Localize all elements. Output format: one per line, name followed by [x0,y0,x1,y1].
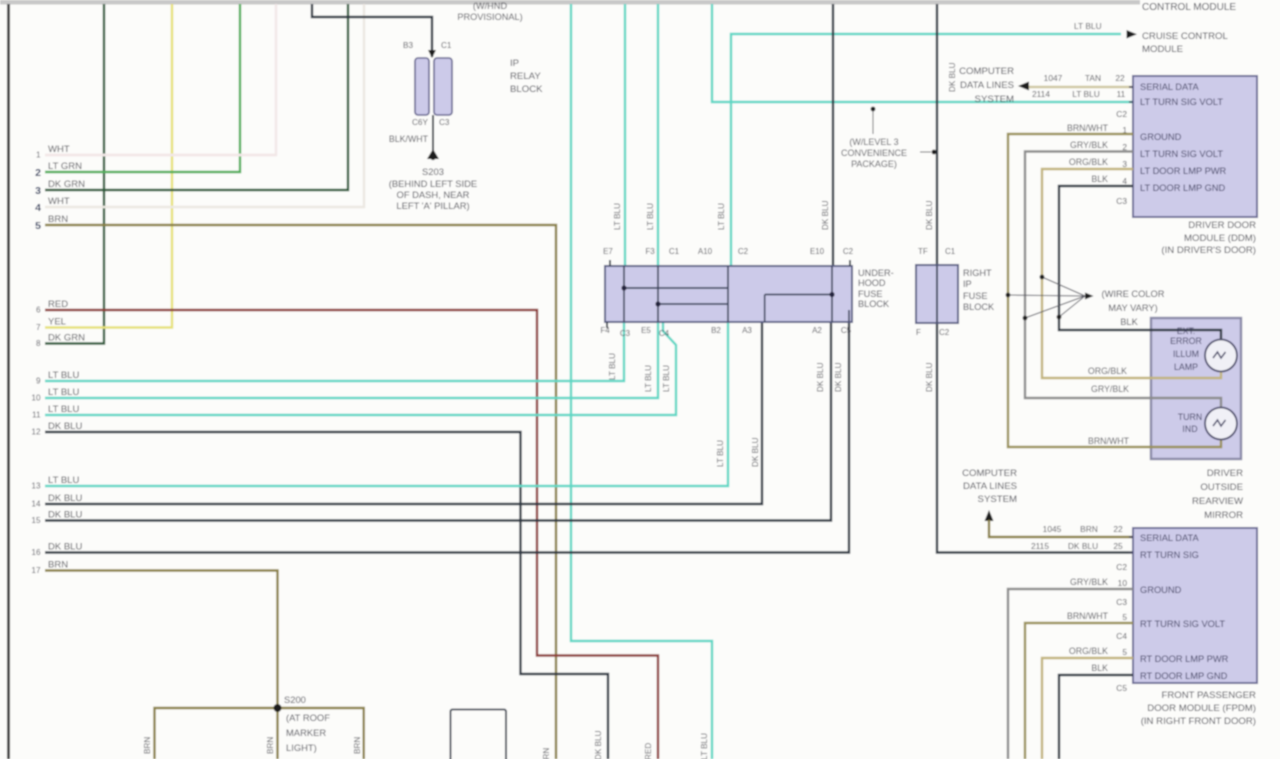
svg-text:C2: C2 [1116,109,1127,119]
wire relay to S203 [432,115,434,153]
fuse block internal wiring [624,266,849,322]
svg-text:12: 12 [31,428,41,437]
svg-text:DK BLU: DK BLU [925,200,934,230]
svg-text:C1: C1 [945,247,956,256]
svg-text:(W/LEVEL 3: (W/LEVEL 3 [849,137,898,147]
computer data lines (bottom) [962,468,1017,505]
svg-text:MARKER: MARKER [286,727,326,738]
svg-text:PACKAGE): PACKAGE) [851,159,897,169]
svg-text:RT TURN SIG: RT TURN SIG [1140,550,1199,560]
serial data wire labels [1032,73,1126,99]
cruise control module text [1142,31,1228,55]
svg-text:DK BLU: DK BLU [48,510,82,521]
svg-text:RT DOOR LMP PWR: RT DOOR LMP PWR [1140,654,1229,664]
svg-text:6: 6 [36,306,41,315]
svg-text:F4: F4 [600,326,610,335]
row 5 BRN wire to bottom [45,225,556,759]
svg-text:10: 10 [1118,578,1128,588]
svg-text:4: 4 [35,202,41,214]
svg-text:ORG/BLK: ORG/BLK [1088,366,1127,376]
svg-text:LT BLU: LT BLU [48,404,79,415]
rotated wire labels near page bottom [542,730,709,759]
svg-text:2114: 2114 [1032,89,1050,99]
top gray bar [0,0,1140,5]
svg-text:C4: C4 [1116,631,1127,641]
mirror box text [1170,326,1202,434]
S203 text [389,166,477,211]
computer data lines (top) [959,66,1014,105]
svg-text:A2: A2 [812,326,822,335]
svg-text:DK BLU: DK BLU [816,362,825,392]
svg-text:DK BLU: DK BLU [948,62,957,92]
svg-text:LT BLU: LT BLU [717,203,726,230]
svg-text:ERROR: ERROR [1170,336,1202,346]
svg-text:SERIAL DATA: SERIAL DATA [1140,82,1200,92]
wire ORG/BLK FPDM [1042,658,1133,759]
row 6 RED wire to bottom [45,310,658,759]
svg-text:PROVISIONAL): PROVISIONAL) [457,12,522,22]
wire DK BLU x937 to right IP fuse block [936,4,938,265]
wire color may vary callout [1008,277,1085,318]
svg-text:BRN: BRN [542,748,551,759]
svg-text:C2: C2 [738,247,749,256]
svg-text:TAN: TAN [1085,73,1101,83]
svg-text:SYSTEM: SYSTEM [978,494,1017,505]
wire BLK DDM pin4 to mirror [1059,186,1221,340]
svg-text:22: 22 [1113,524,1123,534]
svg-text:F: F [916,328,921,337]
front passenger door module (FPDM) [1133,528,1257,683]
svg-text:CRUISE CONTROL: CRUISE CONTROL [1142,31,1228,42]
row color labels [48,144,85,571]
svg-text:DK BLU: DK BLU [834,362,843,392]
svg-text:SERIAL DATA: SERIAL DATA [1140,533,1200,543]
svg-text:ILLUM: ILLUM [1173,349,1199,359]
svg-text:(IN DRIVER'S DOOR): (IN DRIVER'S DOOR) [1161,245,1256,256]
svg-text:LT TURN SIG VOLT: LT TURN SIG VOLT [1140,97,1223,107]
svg-text:MODULE: MODULE [1142,44,1183,55]
wire DK GRN vertical x104 to row 8 [45,4,104,344]
svg-text:ORG/BLK: ORG/BLK [1069,646,1108,656]
fuse top pin labels [603,247,854,256]
svg-text:C3: C3 [1116,196,1127,206]
svg-text:1045: 1045 [1043,524,1062,534]
fuse bottom pin labels [600,326,851,338]
svg-text:BRN/WHT: BRN/WHT [1067,123,1109,133]
svg-text:11: 11 [32,411,41,420]
row 9 LT BLU wire to fuse pin [45,322,624,381]
svg-text:LEFT 'A' PILLAR): LEFT 'A' PILLAR) [396,200,469,211]
svg-text:S200: S200 [284,694,306,705]
svg-text:DRIVER DOOR: DRIVER DOOR [1188,220,1256,231]
svg-text:DK BLU: DK BLU [1068,541,1098,551]
svg-text:4: 4 [1122,176,1127,186]
svg-text:DK BLU: DK BLU [48,493,82,504]
svg-text:RED: RED [644,743,653,759]
svg-text:CONTROL MODULE: CONTROL MODULE [1142,2,1236,13]
svg-text:8: 8 [36,339,41,348]
svg-text:DATA LINES: DATA LINES [963,481,1017,492]
svg-text:BLK: BLK [1091,663,1108,673]
svg-text:13: 13 [31,482,41,491]
svg-text:LT DOOR LMP PWR: LT DOOR LMP PWR [1140,166,1227,176]
wire LT BLU serial data x712 to DDM [712,4,1133,102]
svg-text:25: 25 [1113,541,1123,551]
up arrow [985,510,994,521]
row 11 LT BLU wire to fuse pin [45,322,676,415]
svg-text:C2: C2 [1116,562,1127,572]
svg-text:DK GRN: DK GRN [48,179,85,190]
svg-text:MAY VARY): MAY VARY) [1108,303,1157,313]
wire LT BLU long x569 to bottom [571,4,712,759]
svg-text:DK BLU: DK BLU [48,542,82,553]
arrow into relay block [428,50,436,58]
svg-text:BLK: BLK [1091,174,1108,184]
svg-text:BRN: BRN [353,737,362,754]
wire WHT vertical x364 to row 4 [45,4,364,207]
wire GRY/BLK FPDM [1008,589,1133,759]
driver door module (DDM) [1133,76,1257,217]
rotated BRN labels on S200 drops [143,737,362,754]
svg-text:LT BLU: LT BLU [608,353,617,380]
svg-text:FUSE: FUSE [963,291,988,301]
svg-text:RED: RED [48,299,68,310]
svg-text:GRY/BLK: GRY/BLK [1091,384,1129,394]
svg-text:TURN: TURN [1178,412,1202,422]
svg-text:LT BLU: LT BLU [1072,89,1100,99]
svg-text:2115: 2115 [1031,541,1049,551]
svg-text:RT DOOR LMP GND: RT DOOR LMP GND [1140,671,1228,681]
svg-text:15: 15 [31,516,41,525]
svg-text:B2: B2 [711,326,721,335]
svg-text:C3: C3 [1116,597,1127,607]
svg-text:WHT: WHT [48,196,70,207]
svg-text:BLK: BLK [1120,317,1138,327]
svg-text:LT TURN SIG VOLT: LT TURN SIG VOLT [1140,149,1223,159]
relay pin labels [389,41,452,144]
svg-text:IND: IND [1182,424,1197,434]
svg-text:SYSTEM: SYSTEM [975,94,1014,105]
svg-text:GRY/BLK: GRY/BLK [1070,577,1108,587]
wire LT BLU cruise control from fuse A10 [731,34,1121,266]
wire DK BLU x833 to fuse block [832,4,834,266]
wire BRN/WHT DDM pin1 to mirror [1008,134,1221,447]
svg-text:C5: C5 [841,326,852,335]
wire TAN serial data [1029,86,1133,88]
svg-text:E10: E10 [810,247,825,256]
wire DK GRN vertical x348 to row 3 [45,4,348,190]
wire LT GRN vertical x240 to row 2 [45,4,240,172]
rotated labels below fuse block [608,353,934,467]
svg-text:DK GRN: DK GRN [48,333,85,344]
svg-text:OF DASH, NEAR: OF DASH, NEAR [397,189,470,200]
wire BLK FPDM [1059,675,1133,759]
wire dark feed to IP relay block [312,4,432,57]
svg-text:BLK/WHT: BLK/WHT [389,134,429,144]
svg-text:A3: A3 [742,326,752,335]
svg-text:GRY/BLK: GRY/BLK [1070,140,1108,150]
wire LT BLU x658 to fuse block [657,4,659,266]
svg-text:DK BLU: DK BLU [821,200,830,230]
underhood fuse block [605,266,852,322]
svg-text:DK BLU: DK BLU [751,437,760,467]
wire BRN/WHT FPDM [1025,623,1133,759]
svg-text:3: 3 [35,185,41,197]
svg-text:LT BLU: LT BLU [48,370,79,381]
svg-text:GROUND: GROUND [1140,585,1182,595]
S200 junction dot [274,704,282,712]
svg-text:16: 16 [31,548,41,557]
svg-text:C5: C5 [1116,683,1127,693]
svg-text:LT BLU: LT BLU [48,387,79,398]
wire LT BLU x625 to fuse block [624,4,626,266]
lamp TURN IND [1205,408,1237,440]
FPDM pin stubs [1129,537,1133,675]
svg-text:LT DOOR LMP GND: LT DOOR LMP GND [1140,183,1226,193]
row 10 LT BLU wire to fuse pin [45,322,658,398]
svg-text:LT BLU: LT BLU [48,475,79,486]
IP relay block label [510,58,543,95]
svg-text:LT BLU: LT BLU [644,365,653,392]
W/LEVEL 3 note [841,137,907,169]
svg-text:RT TURN SIG VOLT: RT TURN SIG VOLT [1140,619,1225,629]
svg-text:C2: C2 [843,247,854,256]
svg-text:OUTSIDE: OUTSIDE [1200,482,1243,493]
svg-text:DK BLU: DK BLU [594,730,603,759]
svg-text:(AT ROOF: (AT ROOF [286,712,330,723]
svg-text:YEL: YEL [48,317,66,328]
svg-text:C6Y: C6Y [412,118,428,127]
svg-text:S203: S203 [422,166,444,177]
svg-text:BLOCK: BLOCK [963,302,995,312]
svg-text:GROUND: GROUND [1140,132,1182,142]
svg-text:RIGHT: RIGHT [963,268,992,278]
svg-text:BRN/WHT: BRN/WHT [1088,436,1130,446]
svg-text:DK BLU: DK BLU [48,421,82,432]
wire ORG/BLK DDM pin3 to mirror [1042,169,1221,378]
svg-text:IP: IP [963,279,972,289]
svg-text:IP: IP [510,58,519,69]
svg-text:C2: C2 [939,328,950,337]
svg-text:LT BLU: LT BLU [662,365,671,392]
svg-text:TF: TF [918,247,928,256]
svg-text:BLOCK: BLOCK [510,84,543,95]
svg-text:17: 17 [31,566,41,575]
svg-text:BLOCK: BLOCK [858,299,890,309]
svg-text:C1: C1 [669,247,680,256]
row 15 DK BLU wire to fuse pin [45,322,831,521]
svg-text:C4: C4 [659,329,670,338]
row 14 DK BLU wire to fuse pin [45,322,762,504]
wire BRN 1045 to FPDM [989,520,1133,537]
wire YEL vertical x172 to row 7 [45,4,172,328]
svg-text:(BEHIND LEFT SIDE: (BEHIND LEFT SIDE [389,178,477,189]
svg-text:7: 7 [36,323,41,332]
svg-text:LAMP: LAMP [1174,362,1198,372]
svg-text:COMPUTER: COMPUTER [962,468,1017,479]
svg-text:5: 5 [1122,647,1127,657]
svg-text:DK BLU: DK BLU [925,362,934,392]
DDM pin stubs [1129,87,1133,186]
svg-text:FRONT PASSENGER: FRONT PASSENGER [1161,690,1256,701]
FPDM pin labels [1116,562,1127,693]
mirror wire labels [1088,366,1130,446]
svg-text:11: 11 [1117,89,1126,99]
svg-text:CONVENIENCE: CONVENIENCE [841,148,907,158]
S200 text [284,694,330,753]
svg-text:BRN: BRN [48,560,68,571]
svg-text:3: 3 [1122,159,1127,169]
svg-text:BRN: BRN [266,737,275,754]
svg-text:E7: E7 [603,247,613,256]
svg-text:(WIRE COLOR: (WIRE COLOR [1101,289,1164,299]
svg-text:B3: B3 [403,41,413,50]
underhood fuse block label [858,268,894,309]
svg-text:LT BLU: LT BLU [646,203,655,230]
svg-text:ORG/BLK: ORG/BLK [1069,157,1108,167]
bottom white connector box [451,710,507,759]
row 16 DK BLU wire to fuse pin [45,322,849,553]
svg-text:(W/HND: (W/HND [473,1,508,11]
row 13 LT BLU wire to fuse pin [45,322,728,486]
svg-text:LIGHT): LIGHT) [286,742,317,753]
row numbers [31,151,41,576]
row 17 BRN wire to S200 [45,571,278,709]
svg-text:REARVIEW: REARVIEW [1192,496,1244,507]
row 12 DK BLU wire to bottom [45,432,608,759]
svg-text:C1: C1 [441,41,452,50]
svg-text:LT GRN: LT GRN [48,161,82,172]
lamp EXT ERROR ILLUM [1205,340,1237,372]
S203 splice symbol [427,149,439,159]
svg-text:9: 9 [36,377,41,386]
svg-text:EXT.: EXT. [1177,326,1196,336]
unused pin stubs [607,260,850,328]
svg-text:BRN/WHT: BRN/WHT [1067,611,1109,621]
svg-text:14: 14 [31,500,41,509]
svg-text:LT BLU: LT BLU [613,203,622,230]
svg-text:BRN: BRN [1080,524,1098,534]
cruise arrow [1127,30,1138,39]
svg-text:22: 22 [1115,73,1125,83]
svg-text:10: 10 [31,394,41,403]
svg-text:DRIVER: DRIVER [1207,468,1243,479]
wire GRY/BLK DDM pin2 to mirror [1025,152,1221,408]
mirror assembly box [1151,318,1241,459]
svg-text:C3: C3 [620,329,631,338]
svg-text:5: 5 [35,220,41,232]
svg-text:LT BLU: LT BLU [1074,21,1102,31]
svg-text:BRN: BRN [48,214,68,225]
svg-text:(IN RIGHT FRONT DOOR): (IN RIGHT FRONT DOOR) [1141,716,1256,727]
svg-text:1047: 1047 [1044,73,1063,83]
svg-text:WHT: WHT [48,144,70,155]
left page border [7,4,10,759]
wire WHT vertical x276 to row 1 [45,4,276,155]
right IP fuse block [916,265,958,323]
svg-text:HOOD: HOOD [858,278,886,288]
rotated labels above fuse block [613,62,957,230]
svg-text:2: 2 [35,167,41,179]
svg-text:E5: E5 [641,326,651,335]
svg-text:LT BLU: LT BLU [716,440,725,467]
svg-text:BRN: BRN [143,737,152,754]
left arrow [1018,82,1029,91]
svg-text:LT BLU: LT BLU [700,733,709,759]
IP relay block [415,58,429,115]
svg-text:F3: F3 [645,247,655,256]
svg-text:C3: C3 [439,118,450,127]
svg-text:FUSE: FUSE [858,289,883,299]
svg-text:DOOR MODULE (FPDM): DOOR MODULE (FPDM) [1147,703,1256,714]
svg-text:5: 5 [1122,612,1127,622]
provisional note [457,1,522,22]
svg-text:1: 1 [36,151,41,160]
svg-text:MODULE (DDM): MODULE (DDM) [1184,233,1256,244]
svg-text:MIRROR: MIRROR [1204,510,1243,521]
S200 branch wires [155,708,364,759]
wire DK BLU 2115 right block to FPDM pin 25 [937,323,1133,553]
svg-text:RELAY: RELAY [510,71,541,82]
svg-text:DATA LINES: DATA LINES [960,80,1014,91]
svg-text:UNDER-: UNDER- [858,268,894,278]
svg-text:COMPUTER: COMPUTER [959,66,1014,77]
svg-text:A10: A10 [698,247,713,256]
row 1 WHT wire [45,154,276,156]
